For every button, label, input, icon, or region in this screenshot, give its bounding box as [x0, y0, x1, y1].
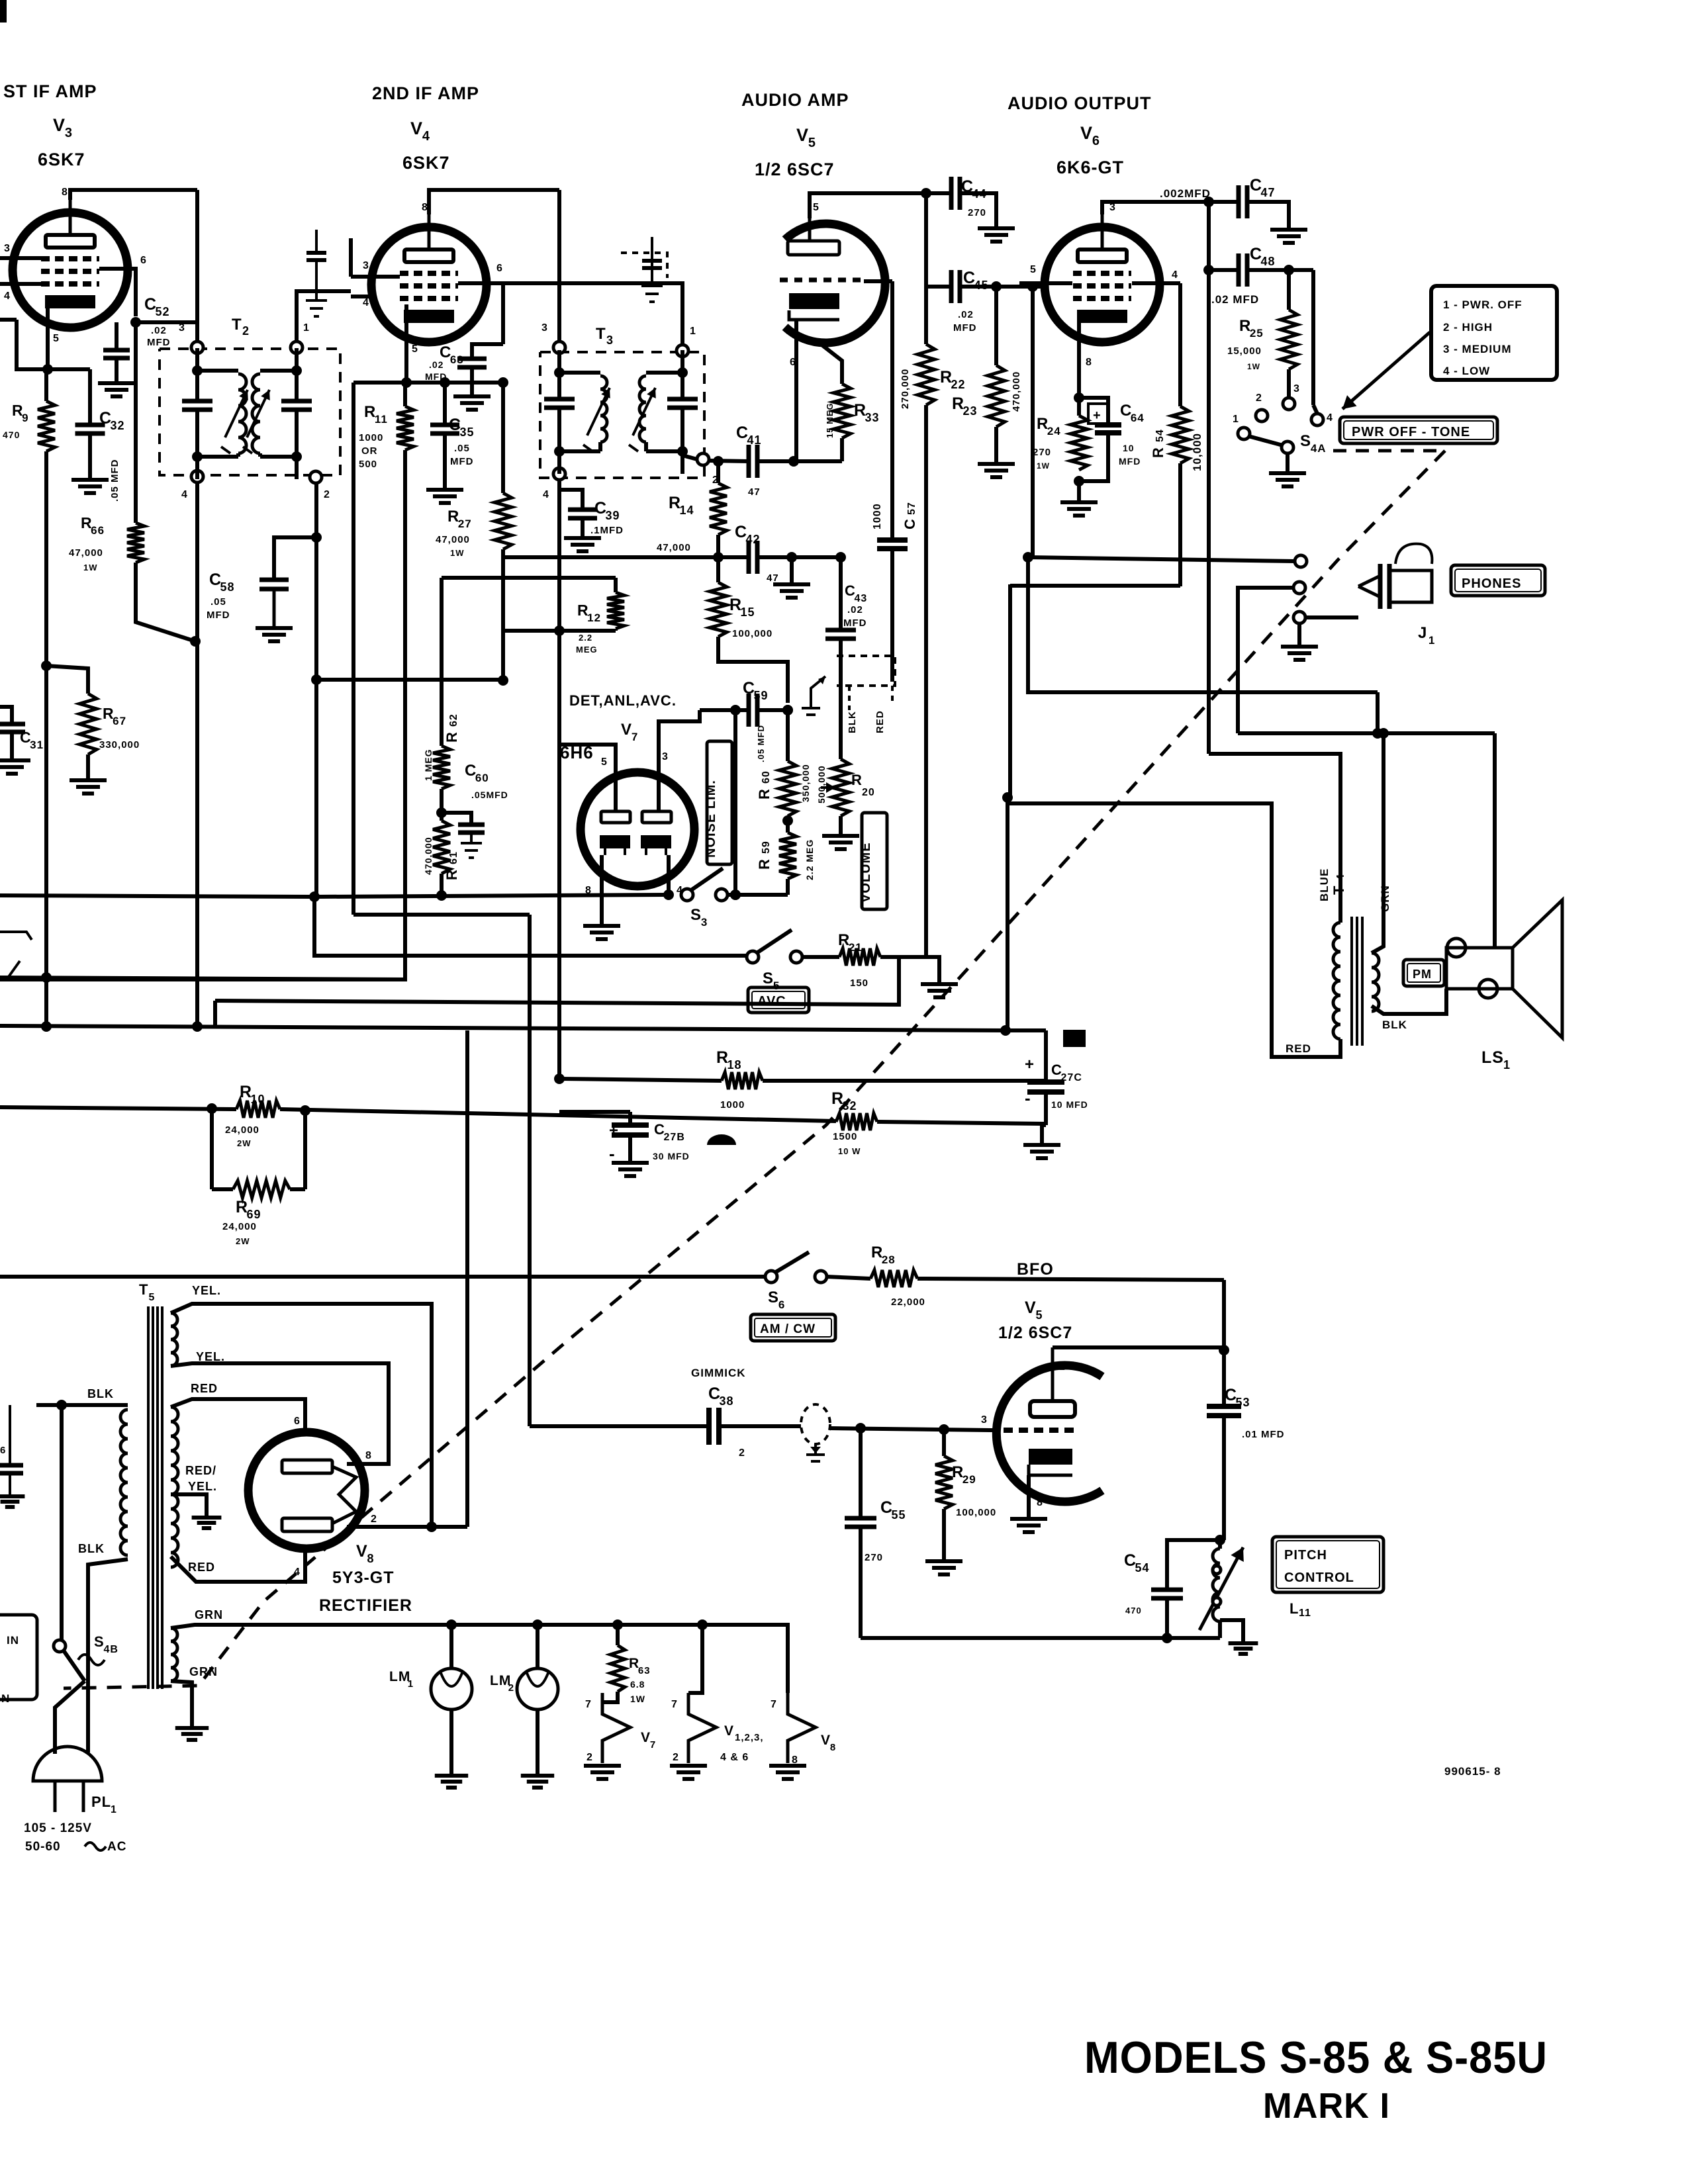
svg-text:24,000: 24,000 [225, 1124, 259, 1136]
V7 pin 4 stem [667, 855, 671, 895]
svg-text:BLK: BLK [78, 1542, 105, 1555]
svg-text:PM: PM [1413, 968, 1432, 981]
node 478-1027 [311, 674, 322, 685]
svg-text:2ND IF AMP: 2ND IF AMP [372, 83, 479, 103]
wire R21 ground stub [926, 957, 939, 982]
wire R20 to ground [839, 816, 843, 834]
transformer T2 dashed box [160, 349, 340, 475]
capacitor C16 left edge [9, 1405, 11, 1464]
svg-text:R: R [756, 858, 773, 870]
svg-text:5: 5 [813, 202, 820, 213]
svg-text:32: 32 [111, 419, 125, 432]
svg-text:AUDIO AMP: AUDIO AMP [741, 90, 849, 110]
svg-text:30 MFD: 30 MFD [653, 1151, 690, 1161]
T3 terminal 3 [553, 341, 565, 353]
V5 cathode [789, 293, 839, 309]
V7 diode plates [601, 811, 630, 823]
L11 variable arrow [1199, 1547, 1243, 1630]
wire cathode bus [17, 320, 90, 369]
capacitor C64 electrolytic [1079, 398, 1108, 424]
wire YEL1 to V8 pin2 node [171, 1304, 432, 1527]
label AVC box [748, 987, 809, 1013]
svg-text:9: 9 [22, 412, 28, 424]
svg-text:6: 6 [0, 1445, 6, 1456]
svg-text:2: 2 [371, 1514, 377, 1525]
svg-text:1000: 1000 [359, 432, 383, 443]
bus V6 cathode-pin5 vertical [1031, 287, 1035, 557]
resistor R11 [397, 406, 414, 450]
svg-text:S: S [763, 970, 774, 987]
wire R29 to ground [942, 1509, 946, 1559]
wire V3 cathode pin5 [46, 304, 50, 369]
svg-text:4: 4 [1327, 412, 1333, 424]
wire C48 to contact 4 [1311, 270, 1315, 405]
corner mark [0, 0, 7, 23]
svg-text:3 - MEDIUM: 3 - MEDIUM [1443, 343, 1512, 355]
svg-text:.02: .02 [151, 325, 167, 336]
switch S5 contact a [747, 951, 759, 963]
svg-text:3: 3 [65, 126, 73, 140]
svg-text:T: T [139, 1281, 148, 1298]
pot R20 wiper arrow [821, 786, 835, 789]
wire V7 pin5 to grid bus [559, 745, 616, 768]
bus y1477 [0, 978, 405, 979]
svg-text:-: - [609, 1144, 616, 1163]
svg-text:CONTROL: CONTROL [1284, 1570, 1354, 1585]
svg-text:47: 47 [767, 572, 779, 584]
node R20 bottom R59 join [782, 705, 793, 715]
svg-text:YEL.: YEL. [192, 1284, 221, 1297]
wire C48 to switch [1247, 268, 1313, 272]
small trimmer cap with ground above T2 right [315, 230, 318, 251]
arrow from info box to switch [1342, 332, 1430, 409]
svg-text:RED: RED [191, 1382, 218, 1395]
wire C27C top [1044, 1030, 1048, 1081]
transformer T3 dashed box [540, 352, 704, 478]
svg-text:6: 6 [496, 263, 503, 274]
svg-text:6: 6 [140, 255, 147, 266]
wire LM2 to ground [536, 1709, 539, 1774]
pin 3 wire V4 [351, 275, 400, 279]
svg-text:43: 43 [855, 593, 868, 604]
svg-text:ST IF AMP: ST IF AMP [3, 81, 97, 101]
node C48 bus left [1203, 265, 1214, 275]
svg-text:.05: .05 [454, 443, 470, 454]
dashed link S4A [1333, 449, 1445, 453]
svg-text:.002MFD: .002MFD [1160, 187, 1211, 200]
svg-text:27: 27 [458, 518, 472, 530]
capacitor C63 [472, 344, 503, 357]
svg-text:V: V [796, 125, 809, 145]
node V4 cathode junction [401, 377, 412, 388]
svg-text:4A: 4A [1311, 442, 1327, 455]
svg-text:470: 470 [3, 430, 20, 440]
V6 cathode stem [1077, 322, 1081, 398]
svg-text:AC: AC [107, 1840, 126, 1854]
svg-text:MFD: MFD [1119, 456, 1141, 467]
wire V5 pin5 chain corner [1028, 557, 1378, 692]
switch S4A contact 1 [1238, 428, 1250, 439]
node R63 tap [612, 1619, 623, 1630]
phone plug symbol [1358, 576, 1380, 597]
wire C44 junction down to C45 [924, 193, 928, 344]
resistor R18 [722, 1072, 763, 1089]
svg-text:1W: 1W [83, 563, 98, 572]
label PM box [1403, 960, 1444, 986]
svg-text:IN: IN [7, 1634, 19, 1647]
bus y1510 [215, 957, 899, 1005]
wire V5 pin6 down to C41 node [794, 361, 798, 461]
svg-text:NOISE LIM.: NOISE LIM. [704, 780, 718, 858]
wire C47 to ground [1247, 202, 1289, 228]
svg-text:5: 5 [412, 343, 418, 355]
node C44 junction [921, 188, 931, 199]
svg-text:10 W: 10 W [838, 1146, 861, 1156]
V5bfo cathode [1029, 1449, 1072, 1465]
wire R9 down to bus [44, 451, 48, 1028]
svg-text:2: 2 [242, 324, 250, 338]
wire C45 to V6 grid [960, 285, 1043, 289]
svg-text:4: 4 [543, 489, 549, 500]
node C42 bus to C43 [792, 557, 841, 594]
wire GRN2 to ground [171, 1681, 192, 1726]
bus S3 y1353 [0, 895, 669, 897]
svg-text:2: 2 [1256, 392, 1262, 404]
svg-text:330,000: 330,000 [99, 739, 140, 751]
svg-text:3: 3 [981, 1414, 988, 1426]
wire S3 to R59 node [727, 893, 788, 897]
T5 HV winding [171, 1407, 178, 1567]
wire R11 long vertical [0, 450, 405, 979]
label VOLUME box [862, 813, 887, 909]
bus to phone jack tip [1028, 557, 1296, 561]
V8 pin 2 wire [347, 1525, 432, 1529]
wire RED top to V8 plate [171, 1399, 305, 1431]
phone jack J1 tip contact [1295, 555, 1307, 567]
wire R33 down to C41 node [840, 438, 844, 461]
svg-text:RED: RED [188, 1561, 215, 1574]
resistor R61 [433, 821, 450, 874]
svg-text:4: 4 [1172, 269, 1178, 281]
ground below C39 [564, 536, 601, 540]
wire V5bfo plate to loop [1053, 1345, 1224, 1349]
resistor R67 [46, 666, 88, 694]
svg-text:470,000: 470,000 [1011, 371, 1022, 412]
svg-text:BLUE: BLUE [1318, 868, 1331, 901]
svg-text:29: 29 [962, 1473, 976, 1486]
svg-text:3: 3 [662, 751, 669, 762]
wire R21 to R22 vertical [880, 955, 926, 959]
wire T4 secondary top to speaker bus [1372, 733, 1383, 953]
svg-text:15: 15 [741, 606, 755, 619]
svg-text:39: 39 [606, 509, 620, 522]
capacitor C43 top wire from R33 bus [839, 592, 843, 596]
svg-text:.02: .02 [958, 309, 974, 320]
V5 plate [808, 218, 812, 241]
wire sleeve to plug [1305, 615, 1358, 619]
label box PWR OFF-TONE [1340, 417, 1497, 443]
bus y1678 to R32 [280, 1109, 836, 1121]
cathode bus of V4 [353, 381, 503, 385]
svg-text:100,000: 100,000 [956, 1507, 996, 1518]
tube V7 6H6 [581, 772, 694, 886]
node R14 top [713, 456, 724, 467]
resistor R69 parallel loop [210, 1109, 214, 1189]
ground below C58 [256, 626, 293, 630]
svg-text:3: 3 [701, 916, 708, 929]
svg-text:5: 5 [53, 333, 60, 344]
node C41 out [788, 456, 799, 467]
capacitor C35 [443, 383, 447, 424]
resistor R15 [710, 582, 727, 637]
svg-text:61: 61 [448, 851, 459, 864]
svg-text:L: L [1289, 1600, 1299, 1617]
node C54 bottom [1162, 1633, 1172, 1643]
node y1205 [1002, 792, 1013, 803]
wire C44 to ground [960, 193, 996, 226]
tube V6 6K6-GT [1045, 227, 1160, 342]
svg-text:+: + [1025, 1056, 1035, 1073]
svg-text:8: 8 [365, 1450, 372, 1461]
wire x478 down [314, 504, 318, 897]
plug PL1 [33, 1747, 102, 1781]
wire GRN bus to heaters [171, 1625, 788, 1693]
svg-text:11: 11 [1299, 1608, 1311, 1619]
svg-text:V: V [641, 1730, 651, 1745]
wire ring to speaker bus [1238, 588, 1293, 733]
svg-text:2: 2 [508, 1682, 514, 1694]
wire T2 term2 down [295, 457, 299, 471]
svg-text:25: 25 [1250, 327, 1264, 340]
bus gimmick y2155 [530, 1424, 709, 1428]
svg-text:1W: 1W [1037, 461, 1050, 471]
resistor R10 [236, 1101, 280, 1118]
capacitor C54 [1167, 1540, 1220, 1588]
resistor R54 [1178, 283, 1182, 406]
svg-text:11: 11 [375, 413, 388, 426]
svg-text:RECTIFIER: RECTIFIER [319, 1596, 412, 1615]
svg-text:2.2: 2.2 [579, 633, 592, 643]
dashed pot enclosure [837, 656, 895, 686]
svg-text:2.2 MEG: 2.2 MEG [804, 839, 815, 880]
tube V5 BFO arc [996, 1365, 1102, 1502]
switch S6 lever [776, 1252, 809, 1272]
resistor R63 [616, 1625, 620, 1645]
bus y1027 from R27 [316, 678, 503, 682]
svg-text:.02 MFD: .02 MFD [1211, 293, 1259, 306]
svg-text:6SK7: 6SK7 [402, 153, 450, 173]
svg-text:60: 60 [761, 770, 772, 784]
node bus y842 [1023, 552, 1033, 563]
svg-text:4: 4 [4, 291, 11, 302]
svg-text:4 - LOW: 4 - LOW [1443, 365, 1490, 377]
resistor R9 [44, 369, 48, 401]
V5bfo cathode stem to ground [1027, 1475, 1031, 1517]
node lamp LM2 tap [532, 1619, 543, 1630]
bus y1553 main B+ [0, 1026, 1046, 1030]
svg-text:LS: LS [1481, 1048, 1504, 1067]
node V7 pin4 bus [663, 889, 674, 900]
svg-text:MFD: MFD [207, 610, 230, 621]
svg-text:60: 60 [475, 772, 489, 784]
svg-text:55: 55 [892, 1508, 906, 1522]
wire T2 term4 down to B+ bus [195, 482, 199, 1028]
svg-text:1W: 1W [1247, 362, 1260, 371]
svg-text:64: 64 [1131, 412, 1145, 424]
svg-text:AM / CW: AM / CW [760, 1322, 816, 1336]
svg-text:5: 5 [149, 1292, 156, 1303]
node R27 bus junction [498, 675, 508, 686]
wire x667 from R12 bus to R62 [440, 578, 444, 746]
ground below C27C [1042, 1125, 1046, 1143]
svg-text:54: 54 [1135, 1561, 1150, 1574]
svg-text:2: 2 [1059, 1361, 1066, 1373]
volume pot R20 [839, 710, 843, 759]
switch S6 contact b [815, 1271, 827, 1283]
T3 secondary tuned circuit [680, 350, 684, 399]
svg-text:BLK: BLK [87, 1387, 114, 1400]
tube V4 6SK7 [371, 227, 487, 342]
svg-text:6: 6 [778, 1298, 785, 1311]
wire C27B top [628, 1112, 632, 1125]
V5bfo grid dashed [992, 1428, 1000, 1432]
svg-text:R: R [756, 788, 773, 799]
svg-text:4: 4 [363, 297, 369, 308]
svg-text:31: 31 [30, 739, 44, 751]
V5 pin6 stem [794, 320, 798, 361]
svg-text:.05: .05 [211, 596, 226, 608]
wire R15 down to C59 [718, 637, 788, 703]
node lamp LM1 tap [446, 1619, 457, 1630]
phone jack sleeve contact [1293, 612, 1305, 623]
resistor R14 [716, 461, 720, 483]
dashed mechanical link diagonal [64, 451, 1445, 1688]
bus plate supply y885 [1010, 584, 1180, 588]
svg-text:J: J [1418, 624, 1427, 642]
svg-text:6K6-GT: 6K6-GT [1056, 158, 1124, 177]
svg-text:8: 8 [62, 187, 68, 198]
wire V5 pin4 to C57 [864, 279, 892, 283]
svg-text:14: 14 [680, 504, 694, 517]
B+ riser from rectifier [465, 1030, 469, 1527]
wire R61 to S3 bus [440, 874, 444, 895]
node C54/L11 top [1215, 1535, 1225, 1545]
svg-text:470: 470 [1125, 1606, 1142, 1615]
vertical from C47/C48 down [1207, 202, 1211, 754]
wire speaker top terminal [1493, 733, 1497, 948]
svg-text:R: R [444, 731, 460, 743]
svg-text:V: V [53, 115, 66, 135]
pitch control inductor L11 [1218, 1540, 1222, 1549]
pin 6 wire V3 grid2 [99, 269, 136, 316]
resistor R22 [917, 344, 935, 405]
svg-text:V: V [621, 721, 632, 739]
svg-text:1/2 6SC7: 1/2 6SC7 [998, 1324, 1072, 1342]
tube V3 6SK7 [13, 212, 128, 328]
grid cap stub above V4 [349, 238, 353, 277]
node bus-S3 junction [309, 891, 320, 902]
svg-text:GRN: GRN [189, 1665, 218, 1678]
corner bus down to output area [1008, 584, 1012, 797]
V7 pin 3 stem [657, 768, 661, 811]
wire V5 plate to C44 [810, 193, 951, 218]
svg-text:1: 1 [1429, 634, 1435, 647]
svg-text:58: 58 [220, 580, 235, 594]
svg-text:350,000: 350,000 [800, 764, 811, 802]
svg-text:66: 66 [91, 524, 105, 537]
T2 terminal 2 [310, 471, 322, 483]
wire LM1 to ground [449, 1709, 453, 1774]
svg-text:MFD: MFD [147, 337, 171, 348]
wire R25 to contact 3 [1287, 369, 1291, 397]
wire sleeve to ground [1297, 623, 1301, 645]
V5bfo plate [1051, 1347, 1055, 1401]
switch S5 lever [757, 930, 792, 953]
node V6 grid junction [1027, 281, 1038, 292]
T2 terminal 4 [191, 471, 203, 482]
svg-text:5: 5 [601, 756, 608, 768]
svg-text:270,000: 270,000 [900, 369, 911, 409]
capacitor C32 [88, 369, 92, 424]
T4 secondary coil [1372, 953, 1379, 1011]
svg-text:6.8: 6.8 [630, 1679, 645, 1690]
wire to ground below R24 [1077, 481, 1081, 500]
resistor R32 [836, 1113, 877, 1130]
svg-text:3: 3 [1109, 202, 1116, 213]
pin 3 stub V3 [0, 256, 41, 260]
node R29 top [939, 1424, 949, 1435]
svg-text:18: 18 [727, 1058, 742, 1071]
T5 yellow winding [171, 1313, 177, 1366]
svg-text:1/2 6SC7: 1/2 6SC7 [755, 159, 835, 179]
pin 4 stub V3 [0, 282, 41, 286]
node R10 right [300, 1105, 310, 1116]
wire T4 secondary bottom to speaker [1372, 989, 1446, 1014]
resistor R28 [827, 1277, 870, 1279]
svg-text:7: 7 [650, 1739, 656, 1751]
svg-text:C: C [902, 518, 918, 529]
resistor R62 [433, 746, 450, 789]
svg-text:VOLUME: VOLUME [859, 842, 873, 903]
svg-text:MEG: MEG [576, 645, 598, 655]
svg-text:2: 2 [673, 1752, 679, 1763]
tube V8 5Y3-GT [248, 1432, 365, 1549]
svg-text:.05 MFD: .05 MFD [109, 459, 120, 502]
svg-text:S: S [690, 906, 702, 924]
svg-text:4: 4 [422, 129, 430, 144]
svg-text:T: T [232, 316, 242, 334]
wire B+ bus to T4 primary [1209, 754, 1340, 923]
svg-text:AVC: AVC [757, 994, 786, 1009]
ground below C63 [453, 394, 491, 398]
svg-text:2: 2 [739, 1447, 745, 1459]
wire V3 plate to top bus [70, 190, 197, 200]
svg-text:4B: 4B [104, 1644, 118, 1655]
switch S4A contact 4 [1311, 414, 1323, 426]
svg-text:1: 1 [408, 1678, 414, 1690]
T2 primary tuned circuit [195, 348, 199, 401]
resistor R59 [779, 833, 796, 879]
node R62 bottom [436, 807, 447, 818]
node R10 left [207, 1103, 217, 1114]
wire pin2 node to B+ riser [432, 1525, 467, 1529]
svg-text:R: R [1150, 447, 1166, 458]
S4B lever [64, 1651, 85, 1681]
svg-text:62: 62 [448, 713, 459, 727]
svg-text:2: 2 [586, 1752, 593, 1763]
svg-text:.02: .02 [847, 604, 863, 615]
svg-text:V: V [1080, 123, 1093, 143]
